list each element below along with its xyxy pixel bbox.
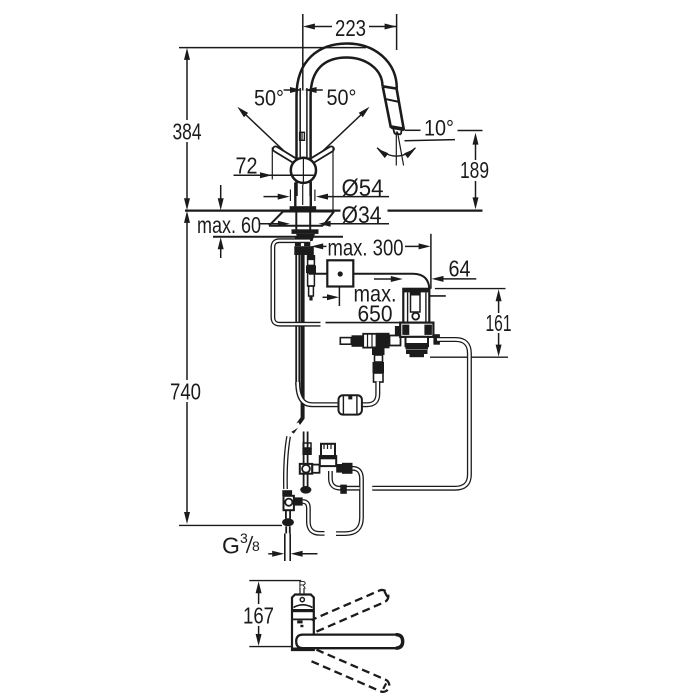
svg-text:650: 650 [358,301,393,327]
10 degree swivel reference lines [396,132,403,166]
extension line right of max300 [430,234,432,289]
dimension 740 [170,211,201,524]
svg-text:189: 189 [460,157,489,183]
dimension 189 [460,133,489,210]
pull-out spray wand [383,86,404,134]
cold supply hose curved [285,437,288,490]
escutcheon [269,212,334,226]
faucet column inner lines [300,88,307,157]
hose from mixer right port J-hook [336,468,362,533]
label diameter 34 [259,202,390,229]
dimension max 650 [323,276,403,327]
svg-text:Ø34: Ø34 [342,202,382,229]
faucet spout arc [297,44,397,197]
angle valve tee [282,490,302,510]
svg-text:Ø54: Ø54 [342,175,384,202]
svg-text:50°: 50° [254,86,284,111]
J-hook hose from angle valve [303,502,325,534]
control box valve block [395,323,440,358]
square sensor box [327,260,353,286]
hose clip detail on column [300,132,305,140]
supply hose pair from shank [296,255,299,385]
svg-text:50°: 50° [327,85,357,110]
svg-text:223: 223 [335,15,366,41]
svg-text:max. 300: max. 300 [328,235,404,261]
dimension 167 [243,581,274,646]
lever handle left [276,149,297,162]
label 10 degrees [405,116,483,141]
dimension max 60 [197,185,261,258]
mixing valve cartridge [320,444,336,466]
svg-text:740: 740 [170,379,201,405]
angle arrows at column axis [284,87,323,93]
pipe from mixer bottom to loop [330,471,359,488]
dimension 223 [303,14,397,50]
dimension 161 [430,289,512,358]
top reference line [179,47,366,49]
label diameter 54 [264,175,390,202]
dimension max 300 [311,235,430,261]
hose break gap [287,424,300,432]
shank locknut [292,212,319,256]
side view lever dashed down [312,650,390,692]
svg-text:3: 3 [240,530,248,546]
dimension 384 [173,48,202,210]
svg-text:167: 167 [243,603,274,629]
svg-text:10°: 10° [424,116,454,141]
countertop bottom line [213,236,343,238]
svg-text:G: G [222,533,240,559]
faucet axis center line [302,14,304,91]
spray swivel arc with arrows [377,148,416,158]
countertop surface line [185,210,483,212]
dimension 72 [234,148,315,180]
side view R mark [299,580,307,594]
inlet fitting chain to control box [340,333,400,349]
pipe below center tee [300,474,311,494]
side view reference bottom line [249,646,294,648]
svg-text:8: 8 [252,538,260,554]
ferrite bead [339,395,362,415]
hose from shank through ferrite to check valve [298,382,338,405]
pull-out spray hose dark [292,255,302,433]
side view lever solid [296,635,403,649]
base flange [290,206,317,210]
svg-text:161: 161 [486,310,512,336]
svg-text:max. 60: max. 60 [197,212,261,238]
faucet neck below ball [295,183,311,207]
dimension 64 [432,256,477,282]
hot supply pipe with break [302,432,311,465]
check valve hanging below chain [372,347,385,383]
outlet pipe big loop [372,340,469,489]
sensor cable loop left [273,241,321,325]
side view lever dashed up [312,590,389,632]
sensor cable to control box [326,322,404,324]
G3/8 supply pipe [285,534,290,562]
mixer right port fittings [336,463,352,474]
svg-text:384: 384 [173,119,202,145]
lever tip extension line right [332,148,334,210]
50 degree swing line left [237,107,302,169]
control box body [403,289,446,323]
check valve adapter below nut [306,255,316,301]
side view reference top line [249,580,301,582]
label G 3/8 [222,530,318,559]
ball joint [291,158,316,185]
nut on bottom pipe [340,485,347,494]
bottom reference line of 740 [179,524,282,526]
control cable from shank [309,274,429,290]
center tee with circle [300,464,320,474]
50 degree swing line right [304,107,369,169]
lever handle right [310,149,331,162]
pipe below angle valve [282,510,294,533]
svg-text:64: 64 [449,256,471,282]
side view faucet body [292,595,314,651]
